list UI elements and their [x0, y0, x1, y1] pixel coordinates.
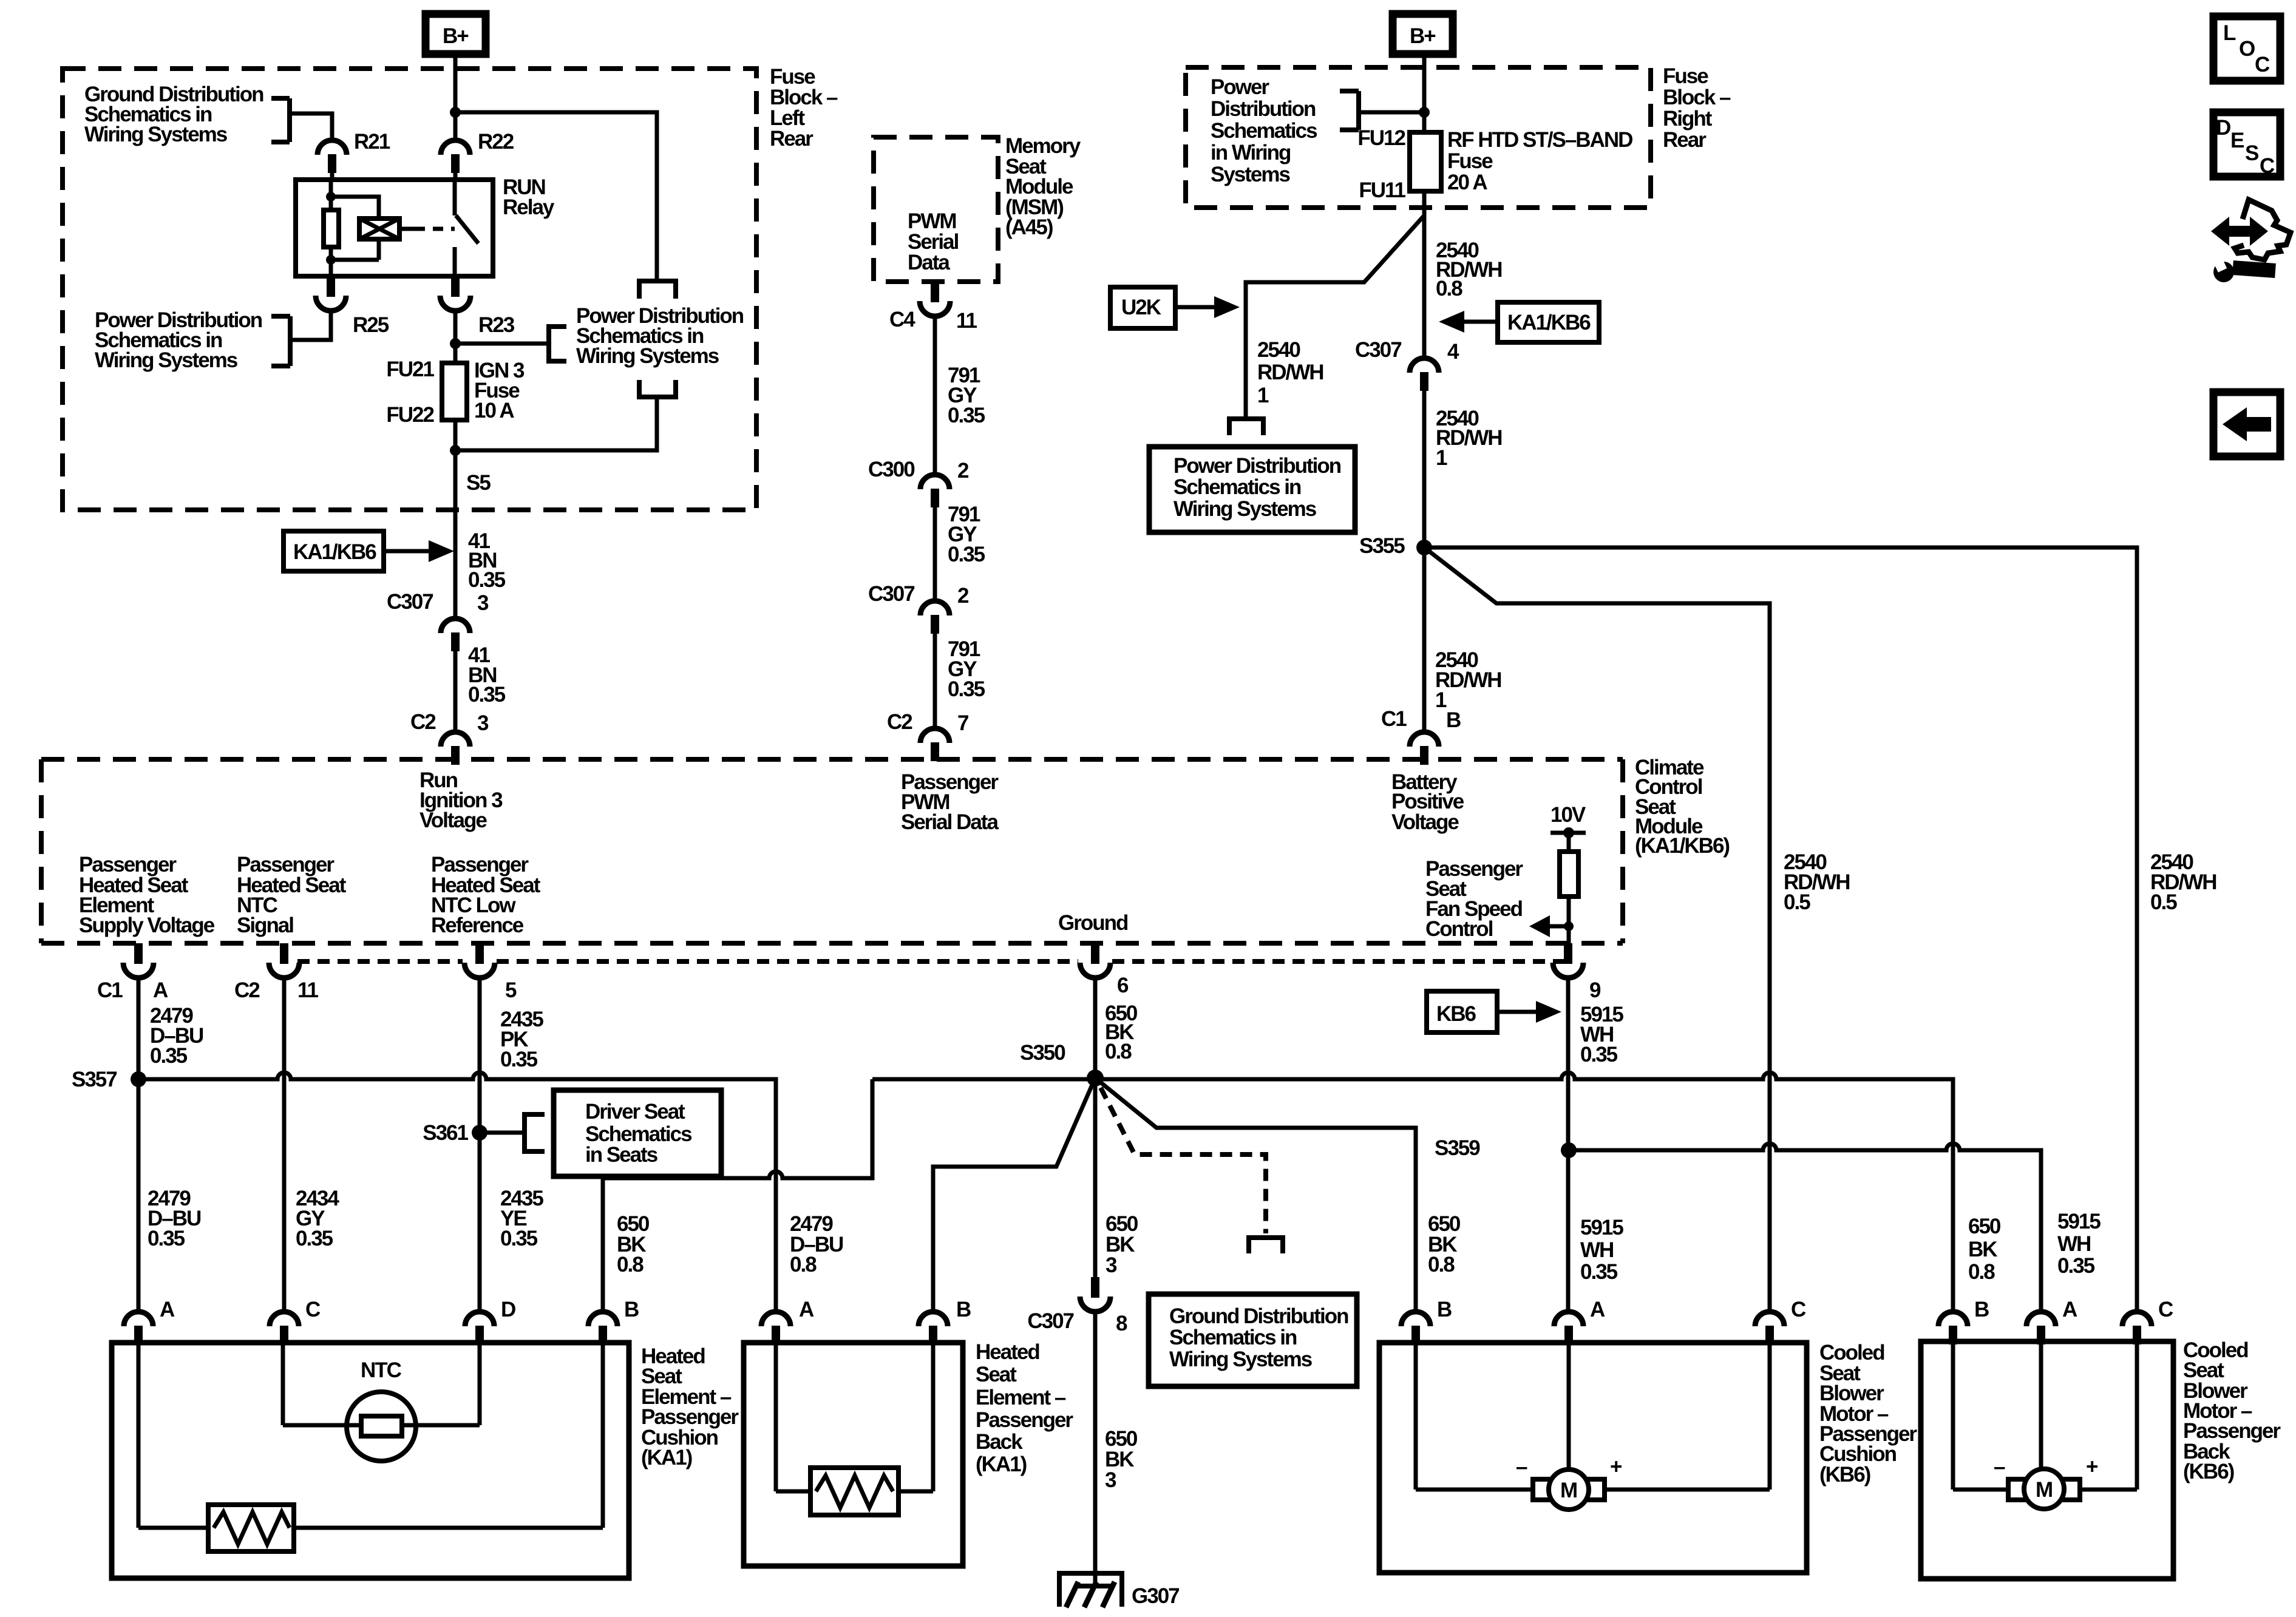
wire C300 to C307 — [933, 507, 937, 600]
wire below fuse — [453, 420, 458, 618]
wire 10V to resistor — [1567, 833, 1571, 852]
wire R25 to bracket — [292, 311, 331, 340]
off-page bracket lower right — [637, 380, 678, 397]
svg-text:G307: G307 — [1132, 1584, 1179, 1608]
svg-text:0.35: 0.35 — [2057, 1254, 2095, 1278]
svg-text:C307: C307 — [1355, 338, 1401, 362]
svg-text:0.35: 0.35 — [948, 677, 985, 701]
svg-text:A: A — [2062, 1298, 2077, 1321]
wire B+ down to relay — [453, 54, 458, 140]
svg-text:B: B — [1974, 1298, 1989, 1321]
svg-text:3: 3 — [477, 711, 489, 735]
connector C4 pin 11 — [920, 282, 950, 316]
svg-text:C2: C2 — [887, 710, 912, 734]
node right B+ — [1419, 107, 1430, 118]
back arrow icon — [2213, 392, 2280, 456]
wire S350 down to C307/8 — [1093, 1078, 1098, 1277]
svg-text:C: C — [2158, 1298, 2173, 1321]
svg-text:NTC: NTC — [361, 1358, 402, 1382]
svg-text:Heated: Heated — [976, 1340, 1039, 1364]
svg-text:S359: S359 — [1435, 1136, 1480, 1160]
bracket ground distribution — [1246, 1238, 1285, 1253]
svg-text:Power: Power — [1211, 75, 1269, 99]
svg-text:0.35: 0.35 — [500, 1227, 538, 1250]
svg-text:B: B — [624, 1298, 639, 1321]
wire S359 to blower back A — [1569, 1144, 2041, 1311]
RUN relay box — [296, 180, 493, 276]
heating element resistor back — [776, 1343, 933, 1491]
U2K box — [1110, 287, 1175, 328]
svg-text:M: M — [2036, 1478, 2052, 1502]
svg-text:A: A — [153, 978, 168, 1002]
svg-text:0.35: 0.35 — [148, 1227, 185, 1250]
svg-text:7: 7 — [957, 711, 968, 735]
svg-text:R21: R21 — [354, 130, 390, 154]
svg-text:11: 11 — [956, 309, 977, 333]
svg-text:(KA1): (KA1) — [641, 1446, 692, 1470]
svg-text:650: 650 — [1968, 1215, 2001, 1238]
svg-text:D: D — [2216, 116, 2230, 140]
svg-text:KA1/KB6: KA1/KB6 — [1507, 311, 1591, 334]
svg-text:KB6: KB6 — [1436, 1002, 1476, 1026]
svg-text:Voltage: Voltage — [419, 808, 487, 832]
relay coil to switch dashed link — [399, 227, 415, 231]
10V supply bar — [1550, 831, 1586, 835]
svg-text:10V: 10V — [1550, 803, 1586, 827]
svg-text:RD/WH: RD/WH — [1257, 361, 1323, 384]
svg-text:Wiring Systems: Wiring Systems — [84, 123, 228, 146]
svg-text:0.35: 0.35 — [150, 1044, 188, 1068]
connector A heated back — [761, 1312, 790, 1344]
svg-text:0.35: 0.35 — [948, 543, 985, 566]
wire S350 left branch down to heated cushion B — [603, 1079, 872, 1311]
node fan speed — [1564, 921, 1574, 931]
heated seat element passenger back box — [744, 1343, 963, 1566]
svg-text:0.8: 0.8 — [1428, 1253, 1455, 1276]
svg-text:0.35: 0.35 — [1580, 1260, 1618, 1284]
svg-text:E: E — [2230, 129, 2244, 152]
svg-text:B+: B+ — [1410, 24, 1436, 48]
svg-text:Data: Data — [908, 251, 950, 274]
svg-text:M: M — [1560, 1479, 1577, 1502]
svg-text:Supply Voltage: Supply Voltage — [79, 914, 215, 937]
svg-text:RF HTD ST/S–BAND: RF HTD ST/S–BAND — [1447, 128, 1632, 152]
wire R22 stub — [453, 173, 458, 180]
svg-text:A: A — [1590, 1298, 1605, 1321]
svg-text:C2: C2 — [410, 710, 436, 734]
svg-text:Wiring Systems: Wiring Systems — [1169, 1347, 1313, 1371]
wire B+ right down — [1422, 54, 1427, 132]
svg-text:C300: C300 — [868, 458, 915, 481]
svg-text:20 A: 20 A — [1447, 171, 1487, 194]
svg-text:in Seats: in Seats — [585, 1143, 658, 1167]
svg-text:Wiring Systems: Wiring Systems — [576, 344, 719, 368]
svg-text:Element –: Element – — [976, 1386, 1066, 1409]
wire U2K diagonal branch — [1246, 215, 1424, 416]
wire C307 to C2 — [453, 651, 458, 731]
connector C blower cushion — [1755, 1312, 1784, 1344]
svg-text:FU22: FU22 — [386, 403, 434, 427]
connector B blower back — [1938, 1312, 1968, 1344]
splice S359 — [1561, 1142, 1577, 1158]
svg-text:–: – — [1994, 1455, 2005, 1479]
wire S350 main horizontal to blower back B — [872, 1073, 1953, 1311]
svg-text:0.5: 0.5 — [1784, 890, 1810, 914]
svg-text:1: 1 — [1435, 688, 1447, 712]
fuse block right rear dashed box — [1186, 67, 1651, 208]
svg-text:A: A — [160, 1298, 175, 1321]
svg-text:1: 1 — [1436, 446, 1447, 470]
svg-text:Distribution: Distribution — [1211, 97, 1316, 121]
svg-text:B+: B+ — [443, 24, 469, 48]
wire R21 stub — [330, 173, 335, 180]
wire S350 diagonal to blower cushion B — [1095, 1078, 1416, 1311]
svg-text:6: 6 — [1117, 974, 1129, 997]
wire pin A down to S357 and heated cushion A — [137, 978, 141, 1311]
svg-text:(KB6): (KB6) — [1819, 1463, 1870, 1486]
svg-text:Ground Distribution: Ground Distribution — [1169, 1304, 1348, 1328]
wire pin 5 down to heated cushion D — [478, 978, 482, 1311]
KA1/KB6 box right — [1498, 302, 1599, 342]
svg-text:Serial Data: Serial Data — [901, 810, 999, 834]
cooled seat blower motor passenger cushion box — [1379, 1343, 1807, 1573]
svg-text:D: D — [501, 1298, 515, 1321]
wire pin 6 down to S350 — [1093, 978, 1098, 1078]
fuse FU21/FU22 IGN 3 — [442, 363, 467, 420]
wire S355 diagonal to blower cushion C — [1424, 547, 1770, 1311]
svg-text:Seat: Seat — [976, 1363, 1017, 1386]
svg-text:10 A: 10 A — [474, 399, 514, 422]
svg-text:KA1/KB6: KA1/KB6 — [293, 540, 376, 564]
module pin 5 — [464, 943, 495, 978]
car diagnostic icon — [2211, 217, 2268, 246]
svg-text:C: C — [1791, 1298, 1806, 1321]
arrow U2K — [1175, 305, 1214, 310]
svg-text:3: 3 — [477, 591, 489, 615]
node B+ branch — [450, 107, 461, 118]
svg-text:S350: S350 — [1020, 1041, 1065, 1065]
svg-text:Schematics in: Schematics in — [1169, 1326, 1297, 1349]
svg-text:B: B — [1446, 708, 1461, 732]
svg-text:0.35: 0.35 — [296, 1227, 333, 1250]
module dashed box — [41, 759, 1623, 943]
MSM dashed box — [874, 137, 998, 282]
dashed ground branch — [1101, 1088, 1266, 1233]
svg-text:S357: S357 — [72, 1068, 117, 1091]
connector C heated cushion — [270, 1312, 299, 1344]
svg-text:Rear: Rear — [770, 127, 813, 151]
svg-text:FU21: FU21 — [386, 358, 434, 381]
svg-text:5915: 5915 — [2057, 1210, 2101, 1233]
connector A blower back — [2026, 1312, 2056, 1344]
svg-text:0.8: 0.8 — [1968, 1260, 1995, 1284]
svg-text:Ground: Ground — [1058, 911, 1128, 935]
svg-text:–: – — [1516, 1455, 1527, 1479]
power distribution box right — [1149, 447, 1355, 532]
wire S355 to far right down — [1424, 547, 2137, 1311]
motor M blower cushion — [1416, 1343, 1770, 1490]
svg-text:S: S — [2245, 141, 2258, 165]
bracket power distribution left — [271, 316, 290, 366]
svg-text:S355: S355 — [1359, 534, 1405, 558]
wire to right bracket — [455, 342, 549, 346]
KA1/KB6 box left — [284, 531, 384, 571]
svg-text:(KA1/KB6): (KA1/KB6) — [1635, 834, 1729, 858]
wire bracket to node — [1359, 110, 1424, 115]
svg-text:0.8: 0.8 — [617, 1253, 644, 1276]
svg-text:C1: C1 — [97, 978, 123, 1002]
svg-text:(KA1): (KA1) — [976, 1453, 1027, 1476]
svg-text:C307: C307 — [868, 582, 914, 606]
relay coil — [331, 197, 379, 260]
svg-text:Passenger: Passenger — [976, 1408, 1073, 1432]
svg-text:C1: C1 — [1381, 707, 1407, 731]
wire resistor down — [1567, 897, 1571, 943]
resistor fan speed — [1560, 852, 1578, 897]
svg-text:S361: S361 — [423, 1121, 468, 1145]
splice S350 — [1087, 1070, 1104, 1086]
svg-text:Systems: Systems — [1211, 163, 1291, 186]
svg-text:FU12: FU12 — [1357, 126, 1405, 150]
svg-text:Wiring Systems: Wiring Systems — [1173, 497, 1317, 521]
module pin C2 11 — [269, 943, 299, 978]
wire S350 diagonal to heated back B — [933, 1078, 1095, 1311]
connector B blower cushion — [1401, 1312, 1430, 1344]
svg-text:+: + — [2086, 1455, 2098, 1479]
arrow KA1/KB6 left — [1439, 311, 1464, 333]
wire below fuse — [1422, 191, 1427, 358]
svg-text:Reference: Reference — [431, 914, 524, 937]
svg-text:(KB6): (KB6) — [2183, 1460, 2234, 1483]
svg-text:Signal: Signal — [237, 914, 293, 937]
in-line connector dotted line — [297, 959, 463, 964]
svg-text:0.8: 0.8 — [1105, 1040, 1132, 1063]
wire pin 11 down to heated cushion C — [282, 978, 287, 1311]
wire C307 to C2 — [933, 634, 937, 728]
heating element resistor cushion — [138, 1343, 603, 1528]
svg-text:1: 1 — [1257, 384, 1269, 407]
svg-text:S5: S5 — [466, 471, 491, 495]
svg-text:Right: Right — [1663, 107, 1713, 131]
node below FU22 — [450, 445, 461, 456]
bracket for ground distribution — [271, 98, 290, 142]
KB6 box — [1427, 991, 1497, 1032]
svg-text:2540: 2540 — [1257, 338, 1300, 362]
svg-text:0.35: 0.35 — [948, 404, 985, 427]
svg-text:C: C — [305, 1298, 321, 1321]
off-page bracket U2K — [1227, 419, 1266, 435]
connector R23 — [440, 276, 470, 311]
svg-text:B: B — [956, 1298, 971, 1321]
svg-text:WH: WH — [1580, 1238, 1613, 1262]
LOC icon — [2213, 16, 2280, 81]
svg-text:Block –: Block – — [1663, 86, 1731, 109]
svg-text:Back: Back — [976, 1430, 1023, 1454]
svg-text:9: 9 — [1589, 978, 1601, 1002]
svg-text:C: C — [2260, 154, 2275, 178]
svg-text:C4: C4 — [889, 308, 915, 331]
svg-text:C307: C307 — [1027, 1309, 1073, 1333]
svg-text:C307: C307 — [387, 590, 433, 614]
svg-text:U2K: U2K — [1121, 296, 1161, 319]
svg-text:Power Distribution: Power Distribution — [1173, 454, 1341, 478]
svg-text:in Wiring: in Wiring — [1211, 141, 1291, 164]
svg-text:8: 8 — [1116, 1312, 1127, 1335]
fuse block left rear dashed box — [63, 69, 756, 510]
wire pin 9 down through S359 to blower cushion A — [1566, 978, 1571, 1311]
svg-text:0.8: 0.8 — [790, 1253, 817, 1276]
bracket power distribution right of R23 — [549, 324, 566, 364]
connector B heated back — [919, 1312, 948, 1344]
wire to lower bracket — [455, 397, 657, 450]
motor M blower back — [1953, 1341, 2137, 1490]
svg-text:5915: 5915 — [1580, 1216, 1623, 1239]
svg-text:11: 11 — [297, 978, 319, 1002]
svg-text:A: A — [799, 1298, 814, 1321]
module pin C1 A — [123, 943, 154, 978]
B+ terminal left — [426, 14, 486, 54]
svg-text:B: B — [1437, 1298, 1452, 1321]
fuse FU12/FU11 RF HTD — [1410, 132, 1441, 191]
splice S357 — [131, 1071, 146, 1087]
svg-text:R25: R25 — [353, 313, 389, 337]
svg-text:2: 2 — [957, 584, 969, 608]
connector R21 — [318, 140, 347, 173]
relay switch — [455, 180, 478, 276]
svg-text:3: 3 — [1105, 1468, 1116, 1492]
svg-text:R23: R23 — [478, 313, 515, 337]
heated seat element passenger cushion box — [112, 1343, 629, 1578]
svg-text:Voltage: Voltage — [1391, 810, 1459, 834]
svg-text:0.35: 0.35 — [1580, 1043, 1618, 1066]
svg-text:(A45): (A45) — [1005, 215, 1053, 239]
connector A blower cushion — [1554, 1312, 1583, 1344]
ground G307 — [1057, 1573, 1124, 1607]
svg-text:+: + — [1610, 1455, 1622, 1479]
bracket power distribution right box — [1340, 91, 1359, 130]
splice S355 — [1416, 540, 1432, 555]
wire R23 down — [453, 311, 458, 363]
svg-text:FU11: FU11 — [1359, 178, 1405, 202]
svg-text:5: 5 — [505, 978, 517, 1002]
arrow KA1/KB6 to wire — [384, 549, 429, 554]
svg-text:Schematics: Schematics — [1211, 119, 1317, 143]
svg-text:Driver Seat: Driver Seat — [585, 1100, 685, 1124]
off-page bracket upper right — [637, 281, 678, 299]
wire S357 horizontal with hops — [138, 1073, 776, 1311]
module pin 6 — [1080, 943, 1110, 978]
wire C307/4 to S355 — [1422, 391, 1427, 731]
wire C4 to C300 — [933, 316, 937, 474]
connector A heated cushion — [124, 1312, 153, 1344]
arrow fan speed control — [1529, 915, 1550, 937]
B+ terminal right — [1393, 14, 1453, 54]
bracket driver seat — [525, 1112, 545, 1154]
connector B heated cushion — [588, 1312, 617, 1344]
connector R25 — [316, 276, 346, 311]
svg-text:0.35: 0.35 — [468, 568, 506, 592]
svg-text:Fuse: Fuse — [1663, 64, 1708, 88]
svg-text:0.35: 0.35 — [500, 1048, 538, 1071]
DESC icon — [2213, 112, 2280, 177]
svg-text:O: O — [2239, 37, 2255, 61]
cooled seat blower motor passenger back box — [1921, 1341, 2173, 1579]
wire branch to right bracket — [455, 112, 657, 280]
svg-text:Rear: Rear — [1663, 128, 1707, 152]
svg-text:L: L — [2223, 21, 2236, 45]
svg-text:WH: WH — [2057, 1232, 2090, 1256]
svg-text:3: 3 — [1106, 1253, 1117, 1277]
driver seat schematics box — [554, 1090, 721, 1176]
svg-text:R22: R22 — [478, 130, 514, 154]
relay coil resistor branch — [329, 180, 333, 276]
svg-text:0.35: 0.35 — [468, 683, 506, 707]
connector R22 — [441, 140, 470, 173]
connector C blower back — [2122, 1312, 2152, 1344]
svg-text:Relay: Relay — [503, 195, 555, 219]
svg-text:2: 2 — [957, 459, 969, 483]
splice S361 — [472, 1125, 487, 1141]
node R23 branch — [450, 338, 461, 349]
ground distribution box — [1149, 1294, 1357, 1386]
svg-text:C: C — [2255, 53, 2270, 76]
svg-text:Fuse: Fuse — [1447, 149, 1493, 173]
svg-text:0.8: 0.8 — [1436, 277, 1462, 300]
svg-text:Control: Control — [1425, 917, 1493, 941]
svg-text:0.5: 0.5 — [2150, 890, 2177, 914]
module pin 9 — [1553, 943, 1583, 978]
connector D heated cushion — [465, 1312, 494, 1344]
svg-text:4: 4 — [1447, 340, 1459, 364]
svg-text:Wiring Systems: Wiring Systems — [95, 348, 238, 372]
wire C307/8 to G307 — [1093, 1312, 1098, 1586]
wire S361 to bracket — [480, 1131, 523, 1135]
arrow KB6 — [1497, 1010, 1536, 1014]
wire bracket to R21 — [290, 114, 332, 140]
svg-text:C2: C2 — [234, 978, 260, 1002]
svg-text:Schematics in: Schematics in — [1173, 475, 1301, 499]
svg-text:BK: BK — [1968, 1238, 1997, 1261]
